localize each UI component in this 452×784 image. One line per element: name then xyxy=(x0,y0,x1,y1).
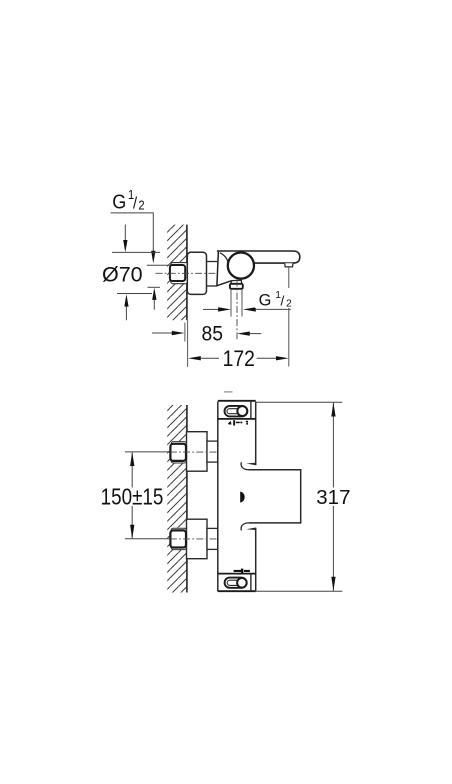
svg-text:2: 2 xyxy=(138,198,144,213)
svg-text:172: 172 xyxy=(223,347,255,371)
svg-text:/: / xyxy=(133,195,138,213)
svg-text:G: G xyxy=(112,192,126,214)
svg-text:2: 2 xyxy=(286,299,292,310)
svg-text:85: 85 xyxy=(201,323,222,346)
svg-text:/: / xyxy=(280,292,284,308)
svg-text:317: 317 xyxy=(316,486,350,509)
svg-text:Ø70: Ø70 xyxy=(102,263,143,287)
svg-text:G: G xyxy=(259,290,272,309)
svg-text:150±15: 150±15 xyxy=(101,485,164,510)
